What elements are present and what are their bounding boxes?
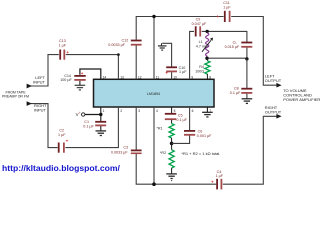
wire C14 to ground [79, 81, 81, 85]
wire pin 14 hook to C14 [80, 69, 101, 79]
svg-text:1 µF: 1 µF [59, 44, 67, 48]
svg-text:+: + [66, 139, 69, 144]
resistor R2 [160, 143, 174, 173]
wire C8 riser [246, 59, 248, 88]
wire pin 11 riser [153, 17, 155, 80]
svg-text:2: 2 [120, 109, 122, 113]
svg-text:14: 14 [103, 75, 107, 79]
svg-text:6: 6 [192, 109, 194, 113]
capacitor C6 0.001uF [184, 130, 212, 139]
wire C9 to CL corner [202, 31, 247, 42]
svg-text:9: 9 [191, 75, 193, 79]
wire pin 4 riser [153, 107, 155, 184]
svg-text:1 µF: 1 µF [179, 70, 187, 74]
svg-text:10: 10 [173, 75, 177, 79]
svg-text:5: 5 [174, 109, 176, 113]
svg-text:0.0033 µF: 0.0033 µF [108, 43, 125, 47]
svg-text:C10: C10 [179, 66, 186, 70]
pin 2 [120, 109, 122, 113]
svg-text:3: 3 [138, 109, 140, 113]
svg-text:12: 12 [138, 75, 142, 79]
pin 6 [192, 109, 194, 113]
ground below C1 [96, 131, 107, 136]
ground below C14 [75, 85, 86, 90]
wire tank bottom rail [207, 57, 247, 59]
svg-text:4.7 mH: 4.7 mH [196, 45, 208, 49]
svg-text:11: 11 [156, 75, 160, 79]
capacitor C10 1uF [165, 66, 187, 76]
pin 13 [120, 75, 124, 79]
svg-text:+: + [165, 71, 168, 76]
pin 7 [209, 109, 211, 113]
capacitor CL 0.015uF [225, 40, 253, 49]
pin 4 [156, 109, 158, 113]
capacitor C5 0.1uF [165, 107, 188, 122]
svg-text:C12: C12 [122, 38, 129, 42]
svg-text:0.1 µF: 0.1 µF [230, 91, 241, 95]
svg-text:INPUT: INPUT [33, 80, 46, 85]
svg-text:C2: C2 [59, 128, 64, 132]
svg-text:L1: L1 [199, 40, 203, 44]
capacitor C12 0.0033uF [108, 38, 141, 47]
wire pin 3 riser to C3 [135, 107, 137, 150]
svg-text:1 µF: 1 µF [216, 174, 224, 178]
wire L1 bottom to node [206, 56, 208, 58]
node junction CL/C8 [245, 57, 248, 60]
node junction pin4/bottom rail [152, 182, 156, 186]
terminal arrow LEFT INPUT [27, 84, 32, 89]
svg-text:0.015 µF: 0.015 µF [225, 45, 240, 49]
node URL caption [2, 163, 121, 173]
node TO VOLUME CONTROL AND POWER AMPLIFIERS label [283, 88, 320, 102]
pin 1 [103, 109, 105, 113]
svg-text:100Ω: 100Ω [195, 69, 204, 73]
inductor L1 4.7mH [196, 33, 213, 56]
node RIGHT INPUT label [34, 103, 47, 113]
pin 11 [156, 75, 160, 79]
svg-text:INPUT: INPUT [34, 108, 47, 113]
pin 5 [174, 109, 176, 113]
svg-text:+: + [211, 179, 214, 184]
ground below C8 [242, 99, 253, 104]
capacitor C1 0.1uF [83, 120, 106, 128]
wire top rail pin12 riser upper [136, 17, 223, 40]
svg-text:C6: C6 [198, 130, 203, 134]
svg-text:0.1 µF: 0.1 µF [83, 124, 94, 128]
wire pin 1 riser [100, 107, 102, 121]
pin 8 [209, 75, 211, 79]
wire C8 to ground [246, 94, 248, 99]
svg-text:0.1 µF: 0.1 µF [176, 118, 187, 122]
svg-text:8: 8 [209, 75, 211, 79]
wire C2 to pin 2 [65, 107, 118, 148]
node LEFT INPUT label [33, 75, 46, 84]
wire C10 top hook [162, 43, 171, 66]
wire C6 to pin 6 [189, 107, 191, 130]
svg-text:C3: C3 [123, 146, 128, 150]
capacitor C14 100uF [60, 71, 85, 82]
capacitor C11 1uF [216, 1, 231, 22]
ground below R2 [166, 174, 177, 181]
capacitor C4 1uF [211, 170, 224, 190]
svg-text:13: 13 [120, 75, 124, 79]
wire C13 to pin 13 [66, 53, 120, 79]
svg-text:POWER AMPLIFIERS: POWER AMPLIFIERS [283, 97, 320, 102]
terminal arrow RIGHT OUTPUT [276, 114, 281, 119]
svg-text:C8: C8 [234, 87, 239, 91]
wire left input to C13 [31, 55, 59, 86]
svg-text:0.001 µF: 0.001 µF [197, 134, 212, 138]
wire right input to C2 [31, 104, 58, 148]
node junction rail/pin11 [152, 15, 155, 18]
wire V+ to pin 1 [85, 114, 101, 116]
capacitor C3 0.0033uF [111, 146, 142, 155]
capacitor C9 0.047uF [192, 18, 207, 37]
svg-text:http://kltaudio.blogspot.com/: http://kltaudio.blogspot.com/ [2, 163, 121, 173]
svg-text:4: 4 [156, 109, 158, 113]
pin 14 [103, 75, 107, 79]
wire CL to tank bottom [246, 48, 248, 59]
svg-text:100 µF: 100 µF [60, 78, 72, 82]
wire C11 to left output corner [231, 17, 280, 86]
svg-text:*R1 + R2 = 1 kΩ total.: *R1 + R2 = 1 kΩ total. [181, 151, 220, 156]
svg-text:1: 1 [103, 109, 105, 113]
wire C4 to right output riser [223, 116, 280, 184]
svg-text:C9: C9 [196, 18, 201, 22]
svg-text:CL: CL [233, 40, 238, 44]
svg-text:*R1: *R1 [156, 126, 162, 130]
svg-text:OUTPUT: OUTPUT [265, 78, 282, 83]
node FROM TAPE PREAMP OR FM label [2, 90, 29, 98]
ground at C10 hook [158, 43, 167, 50]
svg-text:C13: C13 [59, 39, 66, 43]
wire C3 to bottom rail [136, 154, 216, 184]
resistor R1 [156, 120, 174, 144]
wire C1 to ground [100, 126, 102, 130]
wire C12 to pin 12 [135, 46, 137, 80]
wire pin 7 stub [206, 107, 208, 112]
terminal arrow RIGHT INPUT [27, 101, 32, 106]
svg-text:+: + [79, 111, 81, 115]
svg-text:+: + [216, 14, 219, 19]
capacitor C8 0.1uF [230, 87, 253, 95]
svg-text:+: + [81, 71, 84, 76]
node junction C9/L1 [206, 30, 209, 33]
node junction V+/C1 [99, 113, 102, 116]
pin 3 [138, 109, 140, 113]
terminal arrow LEFT OUTPUT [276, 83, 281, 88]
pin 12 [138, 75, 142, 79]
op-amp U1 LM1894 IC body [94, 79, 215, 107]
pin 10 [173, 75, 177, 79]
ground below pin 7 [202, 112, 213, 117]
node RIGHT OUTPUT label [265, 105, 282, 115]
svg-text:1 µF: 1 µF [223, 6, 231, 10]
capacitor C13 1uF [59, 39, 70, 60]
wire node to C6 riser [172, 135, 190, 143]
node junction L1/R4 [205, 57, 208, 60]
wire C10 to pin 10 [171, 72, 173, 79]
svg-text:0.047 µF: 0.047 µF [192, 22, 207, 26]
node V+ terminal [76, 111, 85, 117]
svg-text:C5: C5 [178, 113, 183, 117]
wire pin 9 riser to C9 [190, 31, 194, 79]
resistor R4 100 ohm [195, 58, 210, 79]
svg-text:C11: C11 [223, 1, 230, 5]
svg-text:1 µF: 1 µF [58, 133, 66, 137]
svg-text:LM1894: LM1894 [147, 92, 160, 96]
svg-text:C4: C4 [217, 170, 222, 174]
svg-text:0.0033 µF: 0.0033 µF [111, 151, 128, 155]
capacitor C2 1uF [58, 128, 69, 152]
svg-text:PREAMP OR FM: PREAMP OR FM [2, 95, 29, 99]
svg-text:*R2: *R2 [160, 151, 166, 155]
pin 9 [191, 75, 193, 79]
node R1+R2 note [181, 151, 220, 156]
node LEFT OUTPUT label [265, 73, 282, 83]
svg-text:R4: R4 [199, 65, 204, 69]
node junction R1/R2/C6 [170, 142, 174, 146]
svg-text:OUTPUT: OUTPUT [265, 110, 282, 115]
